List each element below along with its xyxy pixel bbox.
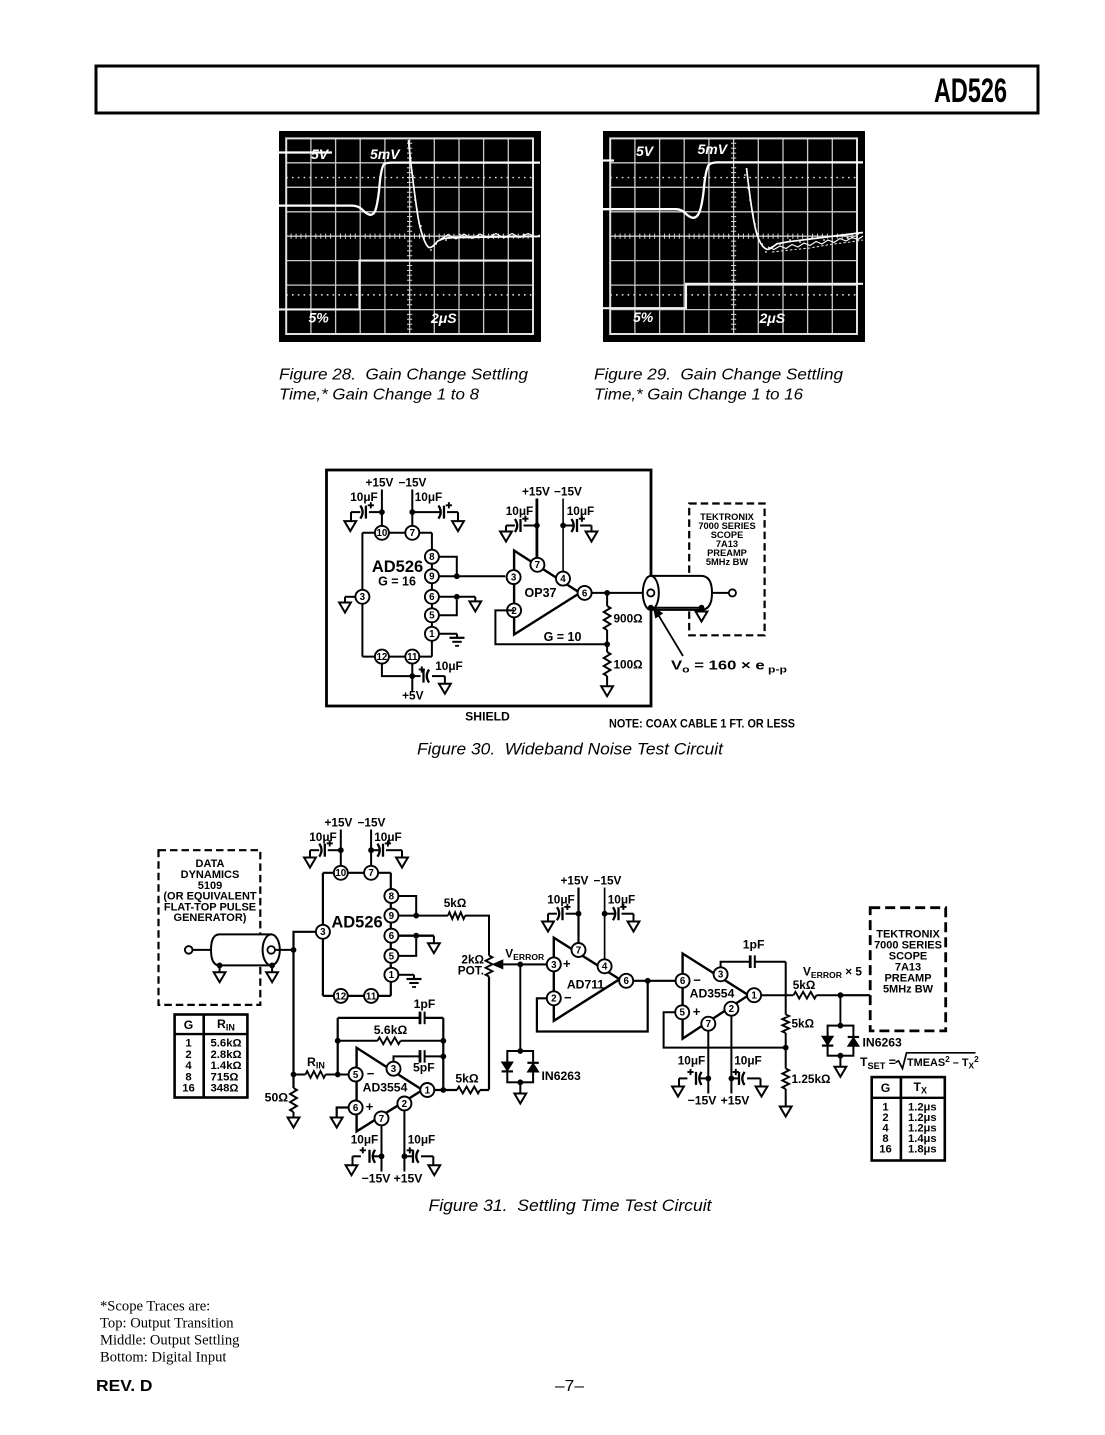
node dot -15V rail fig30 (409, 509, 415, 515)
pin 9 AD526 fig30 (425, 569, 439, 583)
svg-text:+: + (563, 956, 571, 971)
svg-text:AD526: AD526 (331, 914, 382, 932)
svg-text:IN6263: IN6263 (863, 1036, 903, 1050)
svg-text:+: + (693, 1004, 701, 1019)
svg-text:2μS: 2μS (430, 310, 457, 326)
ground below IN6263-2 (835, 1056, 847, 1077)
svg-text:3: 3 (718, 970, 724, 981)
resistor 900 ohm fig30 (604, 593, 643, 644)
svg-text:AD526: AD526 (372, 558, 423, 576)
pin 2 OP37 (507, 603, 521, 617)
node dot pin 2 cap AD3554-1 (402, 1153, 408, 1159)
svg-text:Time,* Gain Change 1 to 8: Time,* Gain Change 1 to 8 (279, 387, 479, 404)
svg-text:AD3554: AD3554 (363, 1081, 408, 1095)
svg-text:7: 7 (535, 560, 541, 571)
svg-text:−15V: −15V (688, 1094, 718, 1108)
svg-text:3: 3 (511, 573, 517, 584)
svg-text:Figure 31. Settling Time Test: Figure 31. Settling Time Test Circuit (429, 1197, 714, 1215)
diode D1 down IN6263-1 (502, 1062, 513, 1071)
svg-text:1.25kΩ: 1.25kΩ (792, 1072, 831, 1086)
svg-text:1: 1 (751, 991, 757, 1002)
svg-text:6: 6 (582, 588, 588, 599)
node dot 5pF right (440, 1054, 446, 1060)
terminal circle pulse generator input (185, 946, 193, 954)
node dot output AD3554-1 (440, 1087, 446, 1093)
node dot +15V rail AD711 (576, 911, 582, 917)
wire pin 1 to earth ground (439, 633, 457, 635)
svg-text:10: 10 (335, 868, 346, 879)
svg-text:16: 16 (182, 1083, 195, 1095)
wire +15V to OP37 pin 7 (536, 499, 539, 559)
wire input node down to RIN node (292, 950, 294, 1075)
wire pin 6 to ground fig31 (398, 935, 434, 937)
wire to Tektronix scope fig31 (840, 994, 870, 996)
node dot pin6 junction fig30 (454, 594, 460, 600)
label AD526 (fig30) (372, 558, 423, 589)
node dot pin 7 cap AD3554-2 (705, 1076, 711, 1082)
wire +15V to pin 10 fig31 (340, 830, 342, 866)
svg-text:2: 2 (185, 1049, 191, 1061)
svg-text:6: 6 (680, 976, 686, 987)
svg-text:8: 8 (389, 891, 395, 902)
pin 2 AD711 (547, 991, 561, 1005)
wire +15V to pin 10 (381, 490, 383, 526)
terminal circle scope input fig30 (729, 589, 736, 596)
svg-text:7: 7 (410, 528, 416, 539)
ground +15V cap AD711 (542, 914, 554, 932)
svg-text:10: 10 (376, 528, 387, 539)
ground +15V cap AD526 fig31 (304, 850, 316, 867)
footnote scope traces (100, 1299, 240, 1366)
svg-text:7: 7 (576, 945, 582, 956)
ground at pin 6 node fig30 (469, 597, 481, 612)
wire -15V to AD711 pin 4 (604, 888, 606, 960)
wire OP37 output to coax (592, 592, 648, 594)
pin 11 AD526 fig31 (364, 989, 378, 1003)
svg-text:5%: 5% (309, 310, 330, 326)
svg-text:5pF: 5pF (413, 1061, 435, 1075)
node dot pin 6 fig31 (413, 933, 419, 939)
ground for OP37 -15V cap (586, 526, 598, 542)
pin 5 AD526 fig31 (384, 949, 398, 963)
wire VERROR node to AD711 pin 3 (520, 963, 547, 965)
pin 7 AD526 fig31 (364, 866, 378, 880)
svg-text:50Ω: 50Ω (265, 1091, 289, 1105)
node dot RIN input node (291, 1072, 297, 1078)
pin 3 AD3554-1 (387, 1062, 401, 1076)
earth ground at pin 1 fig30 (450, 634, 465, 646)
node dot input node fig31 (291, 947, 297, 953)
wire pin 2 down AD3554-1 (403, 1111, 405, 1172)
svg-text:8: 8 (429, 552, 435, 563)
svg-text:+15V: +15V (721, 1094, 751, 1108)
wire node down to IN6263-2 (839, 995, 841, 1025)
svg-text:715Ω: 715Ω (211, 1071, 239, 1083)
capacitor 10uF on OP37 +15V rail (506, 504, 537, 532)
svg-text:+15V: +15V (522, 485, 550, 499)
node dot +15V rail AD526 fig31 (338, 847, 344, 853)
pin 1 AD3554-2 (747, 988, 761, 1002)
op-amp block AD526 fig31 body wires (323, 873, 391, 996)
pin 8 AD526 fig30 (425, 550, 439, 564)
svg-text:G: G (184, 1018, 193, 1032)
node dot gain network AD3554-2 (783, 1045, 789, 1051)
ground cap pin 2 AD3554-1 (428, 1156, 440, 1175)
svg-text:12: 12 (376, 652, 387, 663)
pin 4 AD711 (598, 959, 612, 973)
svg-text:AD3554: AD3554 (690, 987, 735, 1001)
ground for +5V cap fig30 (439, 676, 451, 694)
svg-text:10μF: 10μF (408, 1133, 436, 1147)
svg-text:7: 7 (368, 868, 374, 879)
svg-text:NOTE: COAX CABLE 1 FT. OR LESS: NOTE: COAX CABLE 1 FT. OR LESS (609, 717, 795, 731)
node dot AD3554-1 inverting input (335, 1072, 341, 1078)
svg-text:10μF: 10μF (734, 1054, 762, 1068)
svg-text:SHIELD: SHIELD (465, 710, 510, 724)
diode D3 down IN6263-2 (822, 1036, 833, 1045)
svg-text:5MHz BW: 5MHz BW (706, 557, 749, 567)
svg-text:900Ω: 900Ω (614, 612, 643, 626)
node dot 5.6k left (335, 1038, 341, 1044)
pin 7 OP37 (530, 558, 544, 572)
pin 7 AD3554-2 (701, 1017, 715, 1031)
svg-text:10μF: 10μF (547, 893, 575, 907)
svg-text:IN6263: IN6263 (542, 1069, 582, 1083)
svg-text:9: 9 (389, 911, 395, 922)
pin 6 AD526 fig30 (425, 590, 439, 604)
pin 3 AD3554-2 (714, 967, 728, 981)
pin 3 OP37 (507, 570, 521, 584)
pin 3 AD526 fig30 (355, 590, 369, 604)
svg-text:3: 3 (320, 927, 326, 938)
feedback left vertical wire AD3554-1 (337, 1018, 339, 1075)
wire pin 5 to gain node AD3554-2 (664, 1012, 786, 1047)
svg-text:−15V: −15V (594, 874, 622, 888)
node dot +5V junction fig30 (409, 673, 415, 679)
svg-text:5kΩ: 5kΩ (444, 896, 467, 910)
wire -15V to pin 7 (411, 490, 413, 526)
resistor 5k ohm vertical AD3554-2 (782, 1013, 814, 1048)
ground for -15V cap fig30 (452, 512, 464, 531)
capacitor 10uF pin 2 AD3554-2 (731, 1054, 761, 1085)
table G-RIN rows (182, 1038, 241, 1095)
capacitor 10uF on +5V rail fig30 (412, 659, 462, 683)
pin 1 AD526 fig30 (425, 627, 439, 641)
resistor 50 ohm (265, 1075, 297, 1118)
svg-text:1.4kΩ: 1.4kΩ (211, 1060, 242, 1072)
pin 3 AD526 fig31 (316, 925, 330, 939)
svg-text:G = 10: G = 10 (544, 630, 582, 644)
svg-text:12: 12 (335, 991, 346, 1002)
node dot +15V rail OP37 (534, 523, 540, 529)
svg-text:5kΩ: 5kΩ (455, 1072, 479, 1086)
svg-text:7: 7 (706, 1019, 712, 1030)
wire -15V to OP37 pin 4 (562, 499, 564, 572)
svg-text:+15V: +15V (325, 816, 353, 830)
node dot pin8/pin9 fig31 (413, 913, 419, 919)
wire pin 2 down AD3554-2 (730, 1016, 732, 1094)
output wire AD3554-2 (761, 994, 793, 996)
pin 6 AD3554-2 (676, 974, 690, 988)
pin 6 AD711 (619, 974, 633, 988)
coax cable symbol fig31 input (211, 934, 280, 965)
svg-text:4: 4 (560, 574, 566, 585)
ground below IN6263-1 (514, 1082, 526, 1103)
svg-text:10μF: 10μF (435, 659, 463, 673)
caption figure 29 (594, 367, 843, 404)
node dot pin 2 cap AD3554-2 (729, 1076, 735, 1082)
dashed box Data Dynamics pulse generator (159, 850, 261, 1005)
ground for +15V cap fig30 (344, 512, 356, 531)
pin 6 AD526 fig31 (384, 929, 398, 943)
feedback right vertical AD3554-1 (442, 1018, 444, 1090)
diode D4 up IN6263-2 (848, 1037, 859, 1046)
svg-text:1.8μs: 1.8μs (908, 1144, 937, 1156)
svg-text:5.6kΩ: 5.6kΩ (211, 1038, 242, 1050)
wire coax to input node (275, 949, 294, 951)
arrow to coax node Vo (654, 607, 683, 656)
pin 11 AD526 fig30 (405, 650, 419, 664)
label Vo = 160 x e p-p (671, 658, 787, 676)
node dot VERROR (517, 962, 523, 968)
table G-TX box (872, 1077, 945, 1160)
ground cap pin 2 AD3554-2 (756, 1078, 768, 1096)
resistor RIN (294, 1071, 349, 1078)
pin 10 AD526 fig31 (334, 866, 348, 880)
node dot 5.6k right (440, 1038, 446, 1044)
svg-text:−15V: −15V (554, 485, 582, 499)
diode clamp IN6263 pair at VERROR (507, 1048, 533, 1085)
pin 5 AD3554-2 (675, 1005, 689, 1019)
node dot pin8/pin9 junction fig30 (454, 573, 460, 579)
formula TSET (860, 1053, 979, 1071)
svg-text:+15V: +15V (561, 874, 589, 888)
resistor 5k ohm to scope (793, 978, 870, 999)
svg-text:AD526: AD526 (934, 72, 1007, 110)
node dot -15V rail AD711 (602, 911, 608, 917)
pin 6 AD3554-1 (349, 1101, 363, 1115)
pin 7 AD711 (572, 943, 586, 957)
svg-text:9: 9 (429, 572, 435, 583)
ground below 100 ohm fig30 (601, 686, 613, 696)
svg-text:16: 16 (879, 1144, 891, 1156)
svg-text:10μF: 10μF (608, 893, 636, 907)
svg-text:1pF: 1pF (414, 997, 436, 1011)
pin 12 AD526 fig30 (375, 650, 389, 664)
svg-text:10μF: 10μF (351, 1133, 379, 1147)
pin 1 AD526 fig31 (384, 968, 398, 982)
coax cable symbol fig30 (643, 576, 712, 610)
oscilloscope photo figure 29 (603, 131, 865, 342)
svg-text:+: + (366, 1099, 374, 1114)
resistor 100 ohm fig30 (604, 644, 643, 686)
node dot feedback junction fig30 (604, 641, 610, 647)
wire pin 8 to node (439, 557, 457, 577)
caption figure 28 (279, 367, 528, 404)
svg-text:10μF: 10μF (567, 504, 595, 518)
svg-text:1: 1 (429, 629, 435, 640)
svg-text:5mV: 5mV (698, 141, 729, 157)
svg-text:10μF: 10μF (506, 504, 534, 518)
wire 5k to pot top (465, 916, 489, 956)
svg-text:Figure 29. Gain Change Settli: Figure 29. Gain Change Settling (594, 367, 843, 384)
svg-text:6: 6 (429, 592, 435, 603)
svg-text:5mV: 5mV (370, 146, 401, 162)
op-amp AD3554 U3 triangle (357, 1048, 423, 1132)
svg-text:8: 8 (185, 1071, 191, 1083)
node dot pin 7 cap AD3554-1 (379, 1153, 385, 1159)
svg-text:Bottom: Digital Input: Bottom: Digital Input (100, 1350, 226, 1366)
svg-text:5%: 5% (633, 309, 654, 325)
svg-text:GENERATOR): GENERATOR) (174, 912, 247, 924)
pin 7 AD526 fig30 (405, 526, 419, 540)
svg-text:10μF: 10μF (309, 830, 337, 844)
svg-text:6: 6 (623, 976, 629, 987)
capacitor 1pF AD3554-2 (721, 938, 786, 969)
ground cap pin 7 AD3554-1 (346, 1156, 358, 1175)
ground coax shield fig30 (696, 608, 708, 622)
node dot -15V rail OP37 (560, 523, 566, 529)
svg-text:G = 16: G = 16 (378, 575, 416, 589)
capacitor 10uF +15V rail AD526 fig31 (309, 830, 341, 857)
svg-text:3: 3 (391, 1064, 397, 1075)
ground -15V cap AD526 fig31 (396, 850, 408, 867)
svg-text:11: 11 (407, 652, 418, 663)
wire pin 7 down AD3554-1 (381, 1125, 383, 1171)
wire +15V to AD711 pin 7 (577, 888, 579, 944)
ground coax right fig31 (266, 965, 278, 982)
svg-text:5: 5 (429, 611, 435, 622)
pin 2 AD3554-1 (397, 1097, 411, 1111)
pin 2 AD3554-2 (724, 1002, 738, 1016)
svg-text:1pF: 1pF (743, 938, 765, 952)
svg-text:100Ω: 100Ω (614, 658, 643, 672)
svg-text:5: 5 (389, 951, 395, 962)
capacitor 1pF AD3554-1 (338, 997, 444, 1024)
svg-text:10μF: 10μF (415, 490, 443, 504)
pin 4 OP37 (556, 572, 570, 586)
capacitor 5pF AD3554-1 (394, 1050, 444, 1074)
svg-text:+5V: +5V (402, 689, 423, 703)
wire pin 8 to node fig31 (398, 896, 416, 916)
header rule box (96, 66, 1038, 113)
table G-RIN header (184, 1017, 235, 1033)
pin 10 AD526 fig30 (375, 526, 389, 540)
pin 6 OP37 (578, 586, 592, 600)
svg-text:Middle: Output Settling: Middle: Output Settling (100, 1333, 240, 1349)
ground below 50 ohm (288, 1118, 300, 1128)
svg-text:+15V: +15V (394, 1172, 424, 1186)
svg-text:2: 2 (729, 1004, 735, 1015)
svg-text:5MHz BW: 5MHz BW (883, 984, 934, 996)
svg-text:Figure 28. Gain Change Settli: Figure 28. Gain Change Settling (279, 367, 528, 384)
ground at pin 3 fig30 (339, 597, 355, 613)
coax shield wire to ground fig30 (648, 605, 705, 611)
capacitor 10uF pin 2 AD3554-1 (404, 1133, 435, 1163)
svg-text:AD711: AD711 (567, 978, 604, 992)
pin 5 AD526 fig30 (425, 608, 439, 622)
pot wiper arrow (493, 960, 549, 969)
earth ground pin 1 fig31 (407, 975, 422, 987)
svg-text:2.8kΩ: 2.8kΩ (211, 1049, 242, 1061)
capacitor 10uF +15V rail AD711 (547, 893, 578, 921)
pin 9 AD526 fig31 (384, 909, 398, 923)
svg-text:1: 1 (185, 1038, 191, 1050)
wire pin 1 to earth ground fig31 (398, 974, 414, 976)
ground coax left fig31 (214, 965, 226, 982)
wire pin 5 up to pin 6 node (439, 600, 457, 616)
svg-text:OP37: OP37 (525, 586, 557, 600)
svg-text:*Scope Traces are:: *Scope Traces are: (100, 1299, 210, 1315)
svg-text:348Ω: 348Ω (211, 1083, 239, 1095)
svg-text:Top: Output Transition: Top: Output Transition (100, 1316, 234, 1332)
svg-text:5: 5 (353, 1070, 359, 1081)
wire VERROR node down to clamp diodes (519, 964, 521, 1051)
potentiometer 2k pot (458, 953, 493, 1090)
ground cap pin 7 AD3554-2 (672, 1078, 684, 1096)
svg-text:10μF: 10μF (350, 490, 378, 504)
svg-text:2: 2 (551, 994, 557, 1005)
capacitor 10uF on OP37 -15V rail (563, 504, 594, 532)
svg-text:REV. D: REV. D (96, 1378, 153, 1395)
resistor 1.25k ohm AD3554-2 (782, 1048, 830, 1107)
svg-text:5kΩ: 5kΩ (792, 1017, 815, 1031)
svg-text:1: 1 (389, 970, 395, 981)
svg-text:–7–: –7– (555, 1378, 584, 1395)
ground for OP37 +15V cap (500, 526, 512, 542)
capacitor 10uF pin 7 AD3554-2 (678, 1054, 709, 1085)
svg-text:G: G (881, 1081, 890, 1095)
feedback wire AD711 (537, 981, 648, 1032)
svg-text:6: 6 (389, 931, 395, 942)
svg-text:Time,* Gain Change 1 to 16: Time,* Gain Change 1 to 16 (594, 387, 803, 404)
wire pin 6 to ground AD3554-1 (337, 1108, 349, 1118)
pin 12 AD526 fig31 (334, 989, 348, 1003)
svg-text:Figure 30. Wideband Noise Tes: Figure 30. Wideband Noise Test Circuit (417, 741, 725, 759)
wire coax output to scope terminal (712, 592, 729, 594)
capacitor 10uF pin 7 AD3554-1 (351, 1133, 382, 1163)
shield box (figure 30) (327, 470, 652, 706)
svg-text:TMEAS2 – TX2: TMEAS2 – TX2 (907, 1054, 979, 1071)
wire pin 6 to ground node (439, 596, 475, 598)
node dot OP37 output (604, 590, 610, 596)
svg-text:POT.: POT. (458, 964, 484, 978)
svg-text:2: 2 (402, 1099, 408, 1110)
wire pin 9 to 5k resistor fig31 (398, 915, 448, 917)
dashed box Tektronix scope fig30 (689, 504, 764, 636)
wire pin 9 to OP37 pin 3 (439, 575, 505, 577)
table G-RIN box (175, 1015, 248, 1098)
svg-text:+15V: +15V (366, 476, 394, 490)
svg-text:−: − (367, 1066, 375, 1081)
svg-text:7: 7 (379, 1114, 385, 1125)
diode D2 up IN6263-1 (527, 1063, 538, 1072)
wire pin 7 down AD3554-2 (707, 1031, 709, 1094)
svg-text:5V: 5V (636, 143, 655, 159)
wire input terminal to coax (193, 949, 212, 951)
pin 8 AD526 fig31 (384, 889, 398, 903)
svg-text:−15V: −15V (358, 816, 386, 830)
op-amp block AD526 U1 body wires (362, 533, 432, 657)
op-amp AD3554 U5 triangle (683, 954, 749, 1039)
svg-text:3: 3 (551, 960, 557, 971)
capacitor 10uF -15V rail AD711 (605, 893, 636, 921)
feedback wire OP37 pin 2 G=10 node (495, 610, 607, 644)
op-amp OP37 U2 triangle (514, 551, 580, 635)
pin 7 AD3554-1 (375, 1111, 389, 1125)
node dot AD711 output (645, 978, 651, 984)
wire input node to AD526 pin 3 (294, 932, 316, 950)
